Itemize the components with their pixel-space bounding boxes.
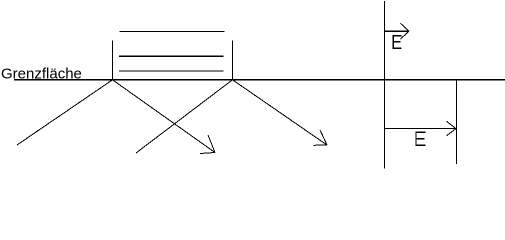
refracted ray from right interface point with arrowhead [233, 80, 328, 146]
interface line (Grenzflaeche) [14, 79, 505, 81]
lower E-field arrow [385, 121, 457, 136]
incident ray lower-left to left interface point [17, 80, 113, 145]
layered slab top line [120, 31, 225, 33]
layered slab middle line 2 [119, 70, 224, 72]
right normal vertical line [384, 1, 386, 169]
layered slab right vertical [232, 41, 234, 80]
upper E label [393, 36, 402, 49]
refracted ray from left interface point with arrowhead [113, 80, 216, 154]
incident ray lower-left to right interface point [136, 80, 233, 153]
layered slab middle line 1 [119, 55, 224, 57]
layered slab left vertical [112, 41, 114, 80]
lower E label [416, 132, 426, 145]
upper E-field arrow [385, 23, 410, 39]
second vertical line right of lower arrow [456, 80, 458, 164]
